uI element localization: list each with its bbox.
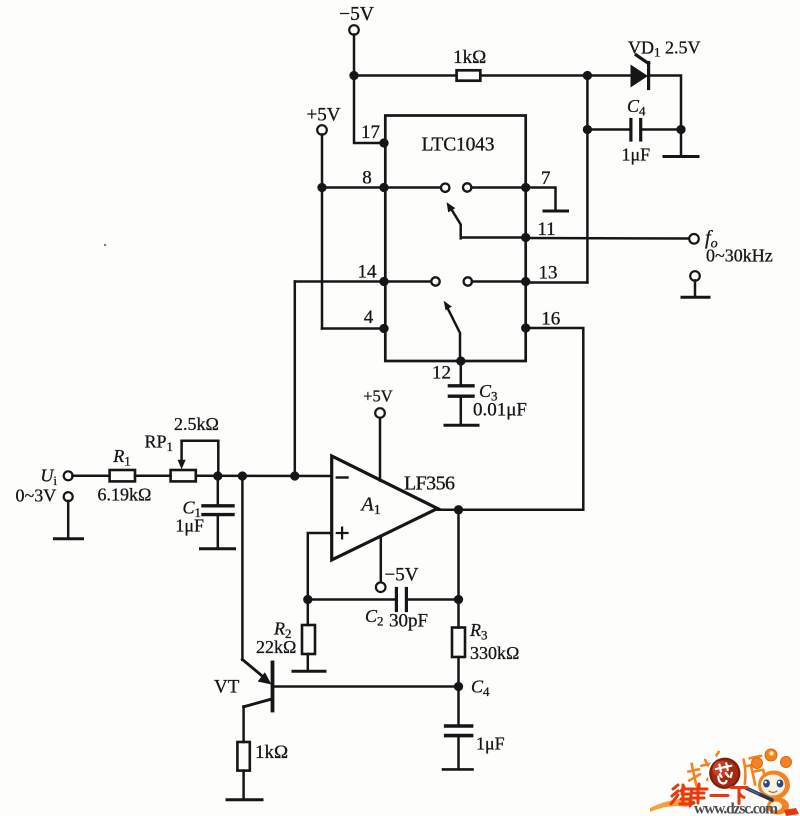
svg-text:13: 13: [539, 263, 558, 284]
ground (pin 7): [544, 210, 568, 213]
wire: [457, 687, 460, 727]
capacitor C1: [203, 506, 233, 515]
junction pin 8: [379, 183, 388, 192]
ground (C3): [445, 424, 478, 427]
ground (output reference): [682, 296, 709, 299]
svg-text:0~30kHz: 0~30kHz: [706, 246, 773, 266]
svg-text:C2: C2: [365, 606, 384, 629]
capacitor C2: [396, 589, 406, 611]
wire: [457, 736, 460, 769]
capacitor C3: [449, 386, 473, 396]
wire R3 stub: [457, 600, 460, 628]
junction pin 11: [521, 233, 530, 242]
capacitor C4 (bottom): [446, 726, 472, 736]
terminal +5V (left): [317, 125, 327, 135]
ground (Ui): [55, 537, 83, 540]
svg-text:1kΩ: 1kΩ: [453, 47, 486, 68]
wire: [72, 475, 109, 478]
watermark char zhao (find) outlined orange: [685, 752, 725, 787]
svg-text:1μF: 1μF: [476, 734, 505, 754]
wire: [641, 128, 681, 131]
wire: [217, 476, 220, 505]
wire plus-input to C2 node: [308, 533, 332, 600]
svg-text:+5V: +5V: [307, 105, 341, 126]
junction C2 left: [303, 595, 312, 604]
wire: [649, 76, 681, 130]
wire op-amp -5V: [380, 536, 383, 582]
wire pin 4: [322, 327, 384, 330]
svg-text:VD1 2.5V: VD1 2.5V: [628, 38, 701, 60]
wire (-5V rail to pin17): [354, 76, 385, 144]
junction pin 4: [379, 324, 388, 333]
svg-text:RP1: RP1: [145, 432, 174, 455]
wire: [457, 657, 460, 687]
wire: [196, 475, 332, 478]
svg-text:−5V: −5V: [339, 4, 374, 25]
wire: [67, 501, 70, 538]
svg-text:C4: C4: [471, 677, 490, 700]
potentiometer RP1: [171, 470, 196, 481]
wire op-amp output: [438, 509, 460, 512]
junction pin14 riser node: [290, 471, 299, 480]
svg-text:11: 11: [537, 219, 555, 240]
zener diode VD1: [631, 55, 649, 89]
IC U1 LTC1043 body: [385, 116, 525, 362]
wire pin7 to ground: [526, 188, 556, 211]
transistor VT (PNP): [242, 660, 272, 711]
ground (C1): [201, 547, 235, 550]
ground (C4 bottom): [443, 768, 473, 771]
terminal fo: [689, 234, 699, 244]
junction pin 17: [379, 138, 388, 147]
switch S1 contact right: [463, 183, 471, 191]
wire: [353, 34, 356, 75]
junction pin 7: [521, 183, 530, 192]
wire: [587, 128, 630, 131]
wire VT base: [274, 685, 459, 688]
svg-text:12: 12: [432, 363, 451, 384]
svg-text:7: 7: [541, 168, 551, 189]
junction pin 16: [521, 323, 530, 332]
junction node -5V rail: [349, 71, 358, 80]
terminal -5V (op-amp): [376, 582, 386, 592]
svg-text:R3: R3: [469, 620, 488, 643]
wire: [460, 396, 463, 424]
wire (+5V rail down): [321, 134, 324, 328]
wire (pin13 to bus): [526, 281, 588, 284]
svg-text:R1: R1: [112, 446, 131, 469]
wire (vertical bus x=587 from anode to pin13): [586, 76, 589, 283]
svg-text:−5V: −5V: [385, 565, 419, 586]
potentiometer RP1 wiper arm: [178, 441, 219, 476]
wire: [460, 361, 463, 385]
svg-text:16: 16: [541, 309, 560, 330]
wire output riser down: [457, 510, 460, 600]
wire: [308, 598, 396, 601]
resistor R3: [452, 628, 465, 658]
junction op-amp output: [454, 505, 463, 514]
svg-text:8: 8: [362, 168, 372, 189]
wire pin 11: [463, 236, 526, 239]
wire pin14 riser to input node: [294, 282, 297, 477]
svg-text:330kΩ: 330kΩ: [470, 643, 519, 663]
wire VT collector down: [242, 707, 245, 743]
svg-text:6.19kΩ: 6.19kΩ: [98, 485, 152, 505]
resistor R2: [302, 625, 315, 654]
wire: [379, 418, 382, 481]
svg-text:22kΩ: 22kΩ: [256, 637, 296, 657]
junction node C4 right: [676, 125, 685, 134]
wire pin 13: [472, 280, 526, 283]
svg-text:2.5kΩ: 2.5kΩ: [174, 414, 219, 434]
watermark text weiku yixia (red, drawn strokes): [671, 784, 747, 806]
svg-text:C4: C4: [627, 96, 646, 119]
svg-text:14: 14: [358, 262, 378, 283]
junction RP1/C1 node: [213, 471, 222, 480]
svg-text:1kΩ: 1kΩ: [255, 742, 288, 763]
op-amp A1 LF356: [332, 456, 438, 560]
svg-text:LF356: LF356: [404, 473, 455, 495]
terminal +5V (op-amp): [375, 408, 385, 418]
svg-text:4: 4: [364, 307, 374, 328]
scan speck: [104, 244, 106, 246]
ground (VT leg): [227, 798, 262, 801]
wire pin16 to op-amp output: [459, 328, 583, 510]
svg-text:www.dzsc.com: www.dzsc.com: [694, 801, 778, 816]
junction pin 13: [521, 277, 530, 286]
resistor 1kOhm (top): [457, 70, 481, 80]
wire: [406, 598, 458, 601]
wire VT emitter riser: [241, 476, 244, 660]
junction +5V rail / pin8 wire: [317, 183, 326, 192]
terminal Ui reference: [64, 492, 73, 501]
svg-text:0~3V: 0~3V: [16, 486, 57, 506]
junction pin 14: [379, 277, 388, 286]
wire pin 8: [322, 186, 441, 189]
terminal Ui: [64, 471, 73, 480]
svg-text:LTC1043: LTC1043: [422, 135, 495, 156]
switch S2 contact left: [431, 277, 439, 285]
wire: [354, 74, 457, 77]
switch S1 arm: [447, 202, 461, 238]
junction node C4 left: [583, 125, 592, 134]
watermark mascot: [746, 749, 799, 816]
svg-text:+5V: +5V: [363, 387, 393, 406]
wire: [242, 771, 245, 799]
wire: [694, 280, 697, 296]
switch S2 contact right: [464, 277, 472, 285]
switch S2 arm: [444, 301, 460, 361]
watermark magnifier with xin (chip core): [706, 754, 744, 792]
wire R2 stub: [307, 600, 310, 626]
wire pin 7: [472, 186, 526, 189]
svg-text:VT: VT: [214, 677, 240, 698]
junction node diode anode: [583, 71, 592, 80]
terminal -5V (top): [349, 25, 359, 35]
wire: [307, 654, 310, 671]
wire pin 14: [295, 280, 432, 283]
terminal output reference: [690, 271, 700, 281]
capacitor C4 (top): [631, 120, 641, 141]
svg-text:A1: A1: [360, 494, 381, 519]
watermark brush swoosh: [650, 799, 692, 812]
ground (R2): [293, 670, 325, 673]
watermark char pian (piece) outlined orange: [740, 756, 767, 787]
svg-text:30pF: 30pF: [389, 611, 428, 632]
svg-text:1μF: 1μF: [175, 516, 204, 536]
junction node C4 (bottom): [454, 682, 463, 691]
junction C2 right / R3 top: [454, 595, 463, 604]
op-amp plus input mark: [337, 528, 348, 539]
svg-text:1μF: 1μF: [622, 145, 651, 165]
resistor R1: [110, 470, 135, 481]
junction pin 12: [456, 356, 465, 365]
svg-text:17: 17: [361, 122, 380, 143]
wire pin11 to fo: [526, 237, 690, 240]
svg-text:0.01μF: 0.01μF: [473, 400, 527, 421]
switch S1 contact left: [441, 184, 449, 192]
wire: [480, 74, 630, 77]
junction VT emitter node: [238, 471, 247, 480]
wire: [217, 515, 220, 548]
wire: [135, 475, 171, 478]
ground (under C4 top): [664, 130, 698, 157]
op-amp minus input mark: [337, 476, 348, 478]
resistor 1kOhm (emitter...collector leg): [237, 742, 249, 771]
